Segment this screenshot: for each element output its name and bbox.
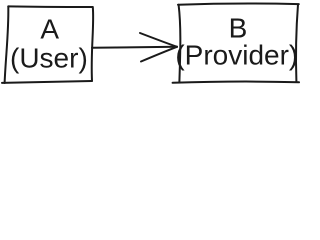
svg-text:B: B: [229, 12, 248, 43]
svg-text:(Provider): (Provider): [175, 40, 298, 71]
svg-text:(User): (User): [10, 42, 88, 73]
svg-text:A: A: [40, 14, 59, 45]
